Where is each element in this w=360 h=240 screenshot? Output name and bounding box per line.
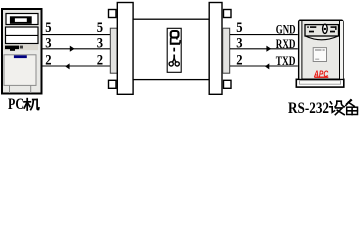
PC floppy drive <box>4 45 39 51</box>
svg-text:RS-232: RS-232 <box>288 100 329 117</box>
APC logo <box>313 69 328 79</box>
arrow left on TXD wire <box>265 63 269 69</box>
left DB9 connector screw top <box>109 10 117 18</box>
RS-232 device base <box>296 79 344 87</box>
svg-text:RXD: RXD <box>276 37 296 51</box>
wire pin3 left <box>43 48 111 50</box>
设 <box>330 101 345 114</box>
left DB9 connector screw bottom <box>109 80 117 88</box>
RS-232 device body <box>299 20 343 79</box>
wire pin5 right GND <box>230 34 298 36</box>
svg-text:3: 3 <box>236 35 242 51</box>
svg-text:GND: GND <box>276 23 296 37</box>
pin numbers left near PC <box>45 20 51 69</box>
PC tower case <box>2 9 42 94</box>
right DB9 connector screw top <box>224 10 232 18</box>
left DB9 connector face <box>110 28 117 73</box>
pin numbers left near connector <box>97 20 103 69</box>
cable label glyph 2 <box>170 31 180 44</box>
svg-text:3: 3 <box>97 35 103 51</box>
device front port square <box>313 48 326 62</box>
device top control panel <box>305 24 339 36</box>
serial cable box <box>133 19 209 79</box>
svg-text:2: 2 <box>97 52 103 68</box>
wire pin5 left <box>43 34 111 36</box>
svg-text:3: 3 <box>45 35 51 51</box>
cable label box <box>167 28 181 72</box>
wire pin3 right RXD <box>230 48 298 50</box>
device 3D side creases <box>299 21 343 79</box>
arrow right on RXD wire <box>266 46 271 52</box>
svg-text:2: 2 <box>236 52 242 68</box>
svg-text:5: 5 <box>45 20 51 36</box>
备 <box>346 100 358 115</box>
PC CD-ROM drive <box>6 14 38 25</box>
label PC机 <box>8 96 39 113</box>
wire pin2 left <box>43 65 111 67</box>
svg-text:5: 5 <box>97 20 103 36</box>
right DB9 connector body <box>209 3 222 95</box>
signal labels GND RXD TXD <box>276 23 296 68</box>
arrow left on wire2 left <box>65 63 69 69</box>
svg-text:TXD: TXD <box>276 54 296 68</box>
PC drive bays <box>6 27 39 44</box>
svg-text:2: 2 <box>45 52 51 68</box>
wire pin2 right TXD <box>230 65 298 67</box>
PC front door panel <box>4 55 36 93</box>
right DB9 connector screw bottom <box>224 80 232 88</box>
svg-text:5: 5 <box>236 20 242 36</box>
right DB9 connector face <box>223 28 230 73</box>
cable label dash and glyph 3 <box>169 48 179 66</box>
device bezel smile curve <box>305 36 338 40</box>
left DB9 connector body <box>117 3 133 95</box>
pin numbers right connector <box>236 20 242 69</box>
svg-text:PC: PC <box>8 96 24 113</box>
label RS-232设备 <box>288 100 358 117</box>
arrow right on wire3 left <box>70 46 75 52</box>
